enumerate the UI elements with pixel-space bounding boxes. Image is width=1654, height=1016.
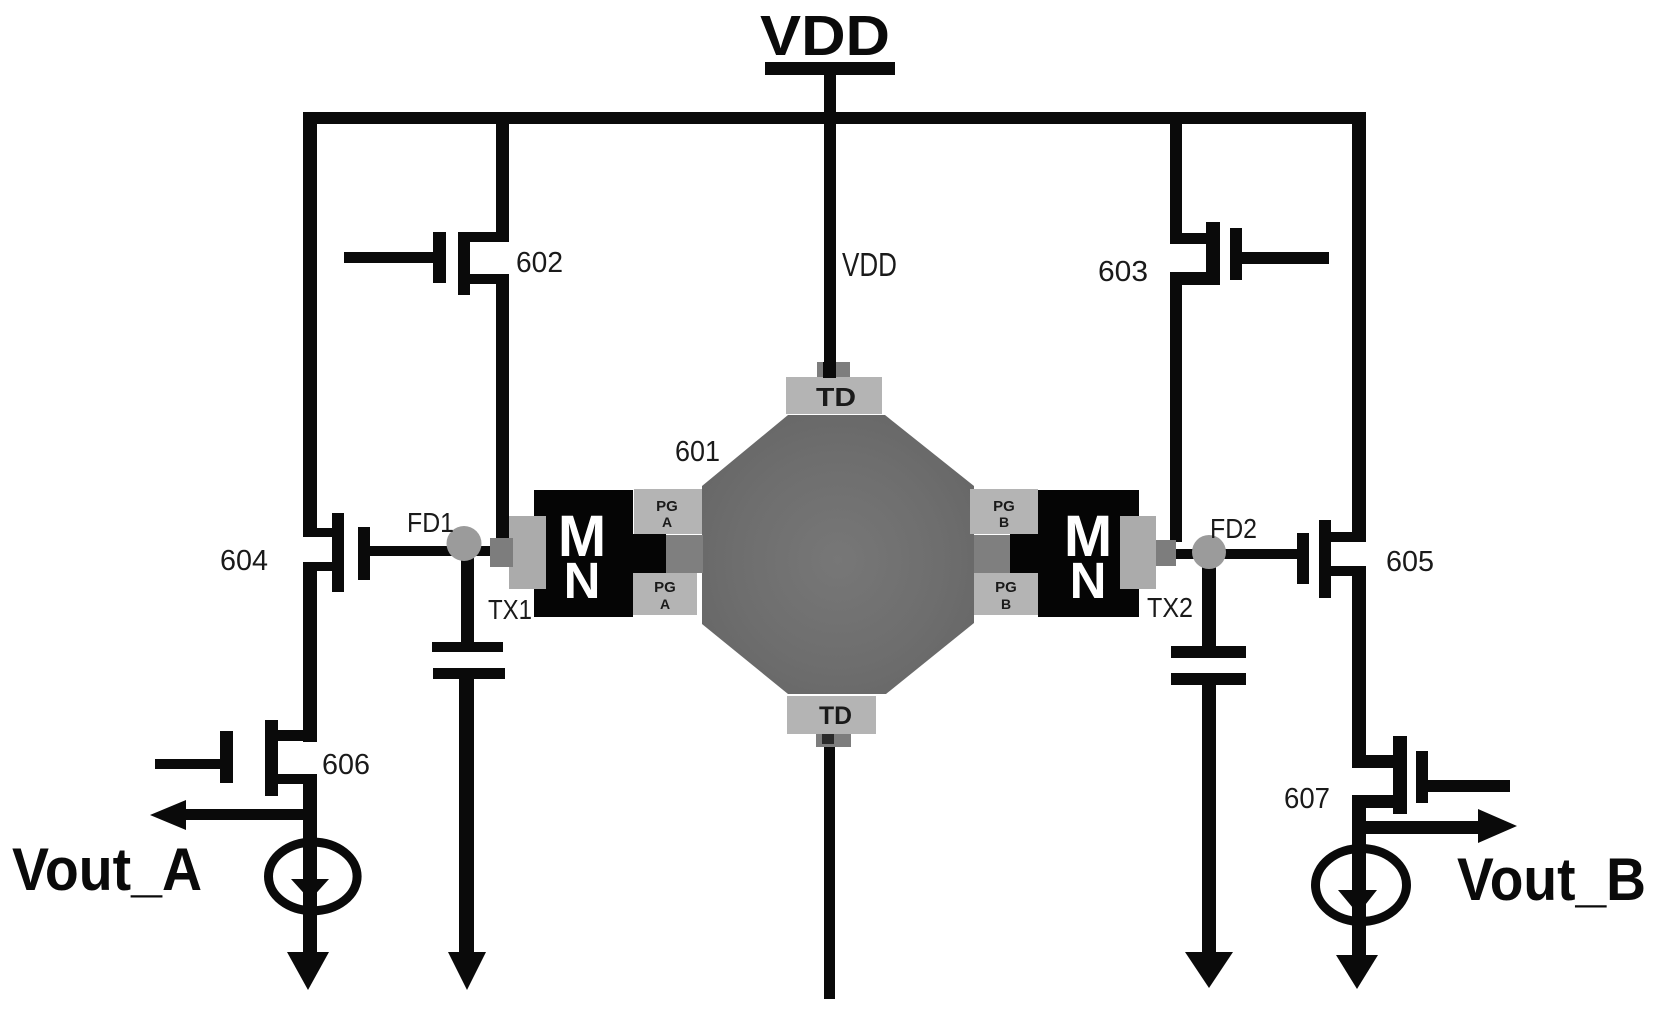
pad TX1 gate plate	[509, 516, 546, 589]
wire 602 drain riser	[496, 118, 509, 242]
transistor 602 gate bar	[433, 232, 446, 283]
node FD2 dot	[1192, 535, 1226, 569]
transistor 606 source stub	[278, 774, 317, 784]
wire 603 drain riser	[1170, 118, 1182, 244]
capacitor C-FD2 bottom plate	[1171, 673, 1246, 685]
photogate stub right	[974, 535, 1011, 573]
svg-text:B: B	[1001, 596, 1011, 612]
transistor 604 gate bar	[358, 527, 370, 580]
pad PG B upper	[970, 489, 1038, 534]
svg-text:PG: PG	[654, 579, 676, 596]
svg-text:TX2: TX2	[1147, 592, 1193, 623]
svg-text:PG: PG	[995, 579, 1017, 596]
pad TD top connector	[817, 362, 850, 377]
svg-text:TD: TD	[816, 382, 856, 412]
wire left rail upper segment	[303, 112, 317, 537]
transistor 605 gate lead to FD2	[1176, 549, 1297, 559]
svg-text:Vout_B: Vout_B	[1457, 846, 1646, 913]
transfer gate TX2 bridge	[1010, 534, 1040, 574]
pad TX2 gate plate	[1120, 516, 1156, 589]
wire top rail	[303, 112, 1366, 124]
svg-text:604: 604	[220, 545, 268, 577]
transistor 607 drain stub	[1352, 755, 1407, 768]
wire capacitor C-FD1 to ground arrow	[459, 679, 474, 958]
wire Vout_B tap	[1352, 821, 1478, 834]
wire 602 source down to FD1	[496, 274, 509, 542]
pad TD top	[786, 377, 882, 414]
arrow Vout_B head	[1478, 809, 1517, 843]
capacitor C-FD1 top plate	[432, 642, 503, 652]
transistor 606 gate bar	[220, 731, 233, 783]
wire TD bottom lead	[824, 747, 835, 999]
arrow capacitor C-FD2 ground	[1185, 952, 1233, 988]
transistor 603 gate lead	[1242, 252, 1329, 264]
capacitor C-FD2 top plate	[1171, 646, 1246, 658]
wire FD1 down to capacitor	[461, 545, 474, 642]
wire VDD stem to top rail	[824, 75, 836, 124]
transistor 603 source stub	[1170, 272, 1220, 285]
svg-text:607: 607	[1284, 783, 1330, 815]
transistor 602 source stub	[458, 274, 509, 284]
svg-text:TX1: TX1	[488, 594, 532, 625]
transistor 602 channel bar	[458, 232, 470, 295]
transistor 604 channel bar	[332, 513, 344, 592]
pad PG A lower	[633, 573, 697, 615]
transfer gate TX2 MN block	[1038, 490, 1139, 617]
transistor 605 drain stub	[1331, 532, 1365, 542]
node FD1 dot	[447, 526, 482, 561]
pad TD bottom	[787, 696, 876, 734]
wire right rail mid segment	[1352, 566, 1366, 768]
wire right rail upper segment	[1352, 112, 1366, 542]
wire 603 source down to FD2	[1170, 283, 1182, 542]
svg-text:A: A	[662, 514, 672, 530]
transistor 607 gate bar	[1416, 751, 1428, 803]
transistor 604 drain stub	[304, 528, 344, 537]
svg-text:Vout_A: Vout_A	[12, 836, 202, 903]
transistor 605 gate bar	[1297, 533, 1309, 584]
transistor 606 drain stub	[278, 730, 317, 741]
transistor 607 source stub	[1352, 795, 1407, 808]
svg-text:A: A	[660, 596, 670, 612]
transistor 603 gate bar	[1230, 228, 1242, 280]
transistor 605 source stub	[1331, 566, 1365, 576]
transfer gate TX1 MN block	[534, 490, 633, 617]
arrow capacitor C-FD1 ground	[448, 952, 486, 990]
pad TD bottom connector mark	[822, 734, 834, 744]
wire VDD tip in connector	[823, 362, 836, 378]
current source I_A arrowhead	[291, 879, 329, 900]
svg-text:605: 605	[1386, 546, 1434, 578]
current source I_B arrowhead	[1338, 890, 1377, 914]
arrow Vout_A head	[150, 800, 186, 830]
transistor 606 channel bar	[265, 720, 278, 796]
pad PG A upper	[634, 489, 702, 534]
photogate stub left	[665, 535, 703, 573]
pad TD bottom connector	[816, 734, 851, 747]
wire left rail mid segment	[303, 562, 317, 742]
current source I_B circle	[1316, 849, 1407, 922]
svg-text:N: N	[1070, 552, 1107, 609]
svg-text:VDD: VDD	[760, 4, 890, 68]
wire right rail lower segment	[1352, 795, 1366, 958]
svg-text:PG: PG	[656, 498, 678, 515]
pad TX2 connector	[1156, 540, 1176, 566]
transistor 606 gate lead	[155, 759, 220, 769]
transistor 605 channel bar	[1319, 520, 1331, 598]
svg-text:FD1: FD1	[407, 507, 454, 538]
arrow right rail ground	[1336, 955, 1378, 989]
transistor 603 drain stub	[1170, 233, 1220, 244]
current source I_A circle	[269, 842, 358, 911]
wire center VDD drop to photodiode	[824, 124, 836, 378]
wire FD2 down to capacitor	[1202, 552, 1216, 646]
svg-text:606: 606	[322, 749, 370, 781]
svg-text:TD: TD	[819, 702, 852, 730]
wire left rail lower segment	[303, 774, 317, 958]
svg-text:FD2: FD2	[1210, 513, 1257, 544]
transistor 602 drain stub	[458, 232, 509, 242]
svg-text:N: N	[564, 552, 601, 609]
svg-text:VDD: VDD	[842, 246, 897, 283]
pad PG B lower	[974, 573, 1038, 615]
arrow left rail ground	[287, 952, 329, 990]
transistor 603 channel bar	[1206, 222, 1220, 285]
wire Vout_A tap	[180, 809, 317, 820]
photodiode 601 octagon body	[702, 415, 974, 694]
svg-text:601: 601	[675, 436, 720, 468]
transistor 604 source stub	[304, 562, 344, 571]
svg-text:B: B	[999, 514, 1009, 530]
transistor 607 channel bar	[1393, 736, 1407, 814]
transistor 607 gate lead	[1428, 780, 1510, 792]
transistor 604 gate lead to FD1	[369, 546, 491, 556]
transistor 602 gate lead	[344, 252, 433, 263]
capacitor C-FD1 bottom plate	[433, 668, 505, 679]
VDD supply bar	[765, 62, 895, 75]
svg-text:603: 603	[1098, 256, 1148, 288]
svg-text:602: 602	[516, 247, 563, 279]
wire capacitor C-FD2 to ground arrow	[1202, 685, 1216, 958]
svg-text:PG: PG	[993, 498, 1015, 515]
transfer gate TX1 bridge	[632, 534, 666, 574]
pad TX1 connector	[490, 538, 513, 567]
